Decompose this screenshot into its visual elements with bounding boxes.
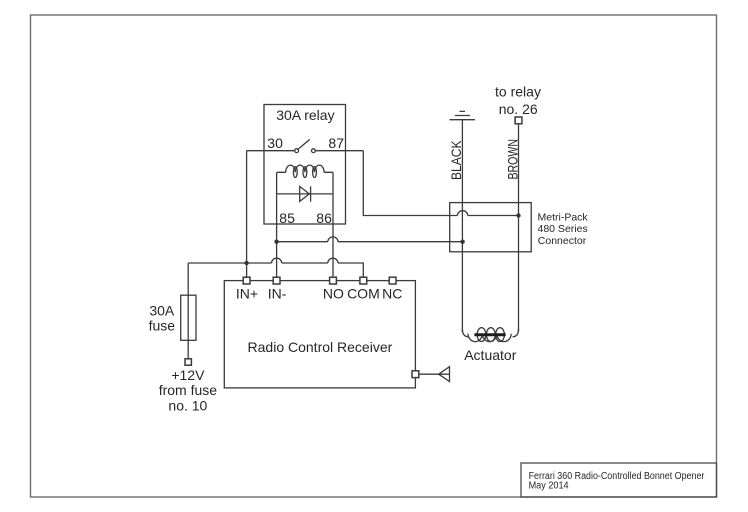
- diode D1 triangle: [300, 186, 310, 201]
- svg-text:from fuse: from fuse: [159, 382, 218, 398]
- wire hop over NO wire: [328, 237, 338, 242]
- antenna feed wire: [419, 373, 450, 375]
- actuator right lead corner: [513, 329, 519, 337]
- Metri-Pack connector box: [450, 203, 532, 252]
- terminal square NO: [330, 277, 337, 284]
- svg-text:30: 30: [267, 135, 283, 151]
- actuator coil loop 1: [477, 328, 486, 342]
- +12V terminal square: [185, 359, 191, 365]
- svg-text:COM: COM: [347, 285, 380, 301]
- junction dot at IN+ / +12V bus: [244, 261, 248, 265]
- terminal square IN+: [243, 277, 250, 284]
- title block box: [521, 463, 717, 497]
- svg-text:Actuator: Actuator: [464, 347, 516, 363]
- svg-text:86: 86: [316, 210, 332, 226]
- fuse F1 bottom wire to +12V terminal: [187, 340, 189, 359]
- svg-text:IN+: IN+: [236, 285, 258, 301]
- relay coil L1 humps: [286, 165, 324, 172]
- relay coil loop 3: [313, 167, 317, 178]
- junction dot at BROWN wire in connector: [516, 213, 520, 217]
- svg-text:Connector: Connector: [538, 235, 587, 247]
- wire pin 87 vertical and to connector: [363, 151, 518, 216]
- svg-text:May 2014: May 2014: [529, 481, 569, 492]
- svg-text:30A relay: 30A relay: [276, 107, 334, 123]
- actuator coil loop 3: [496, 328, 505, 342]
- svg-text:85: 85: [279, 210, 295, 226]
- antenna triangle: [439, 367, 450, 382]
- svg-text:NC: NC: [382, 285, 402, 301]
- fuse F1 top wire: [187, 263, 189, 295]
- wire pin 30 vertical down to IN+: [246, 151, 248, 278]
- junction dot at BLACK wire in connector: [460, 240, 464, 244]
- terminal square IN-: [273, 277, 280, 284]
- relay coil loop 1: [293, 167, 297, 178]
- svg-text:NO: NO: [323, 285, 344, 301]
- actuator coil scallops: [468, 334, 511, 342]
- +12V bus wire from fuse to COM: [188, 263, 363, 277]
- antenna terminal square: [412, 371, 419, 378]
- terminal square COM: [360, 277, 367, 284]
- to relay no.26 terminal square: [515, 117, 522, 124]
- wire pin 87 to right: [315, 150, 363, 152]
- ground symbol bars: [450, 111, 476, 119]
- svg-text:fuse: fuse: [149, 318, 176, 334]
- wire hop over IN- wire: [272, 258, 282, 263]
- fuse F1 internal wire: [187, 295, 189, 340]
- wire pin 86 vertical (inner box right edge) down to NO: [332, 172, 334, 277]
- relay switch contact wire from pin 30: [247, 150, 295, 152]
- junction dot at 85 bus: [274, 240, 278, 244]
- relay coil loop 2: [303, 167, 307, 178]
- svg-text:BROWN: BROWN: [505, 139, 521, 180]
- svg-text:87: 87: [328, 135, 344, 151]
- svg-text:no. 10: no. 10: [168, 398, 207, 414]
- svg-text:Radio Control Receiver: Radio Control Receiver: [248, 339, 393, 355]
- wire 85 bus to connector: [277, 241, 463, 243]
- svg-text:Metri-Pack: Metri-Pack: [538, 211, 589, 223]
- BROWN wire from terminal to actuator: [518, 124, 520, 332]
- wire hop over BLACK wire: [458, 211, 468, 216]
- wire hop over NO wire on 12V bus: [328, 258, 338, 263]
- relay box: [264, 105, 346, 225]
- relay switch blade: [298, 139, 310, 149]
- actuator coil loop 2: [486, 328, 495, 342]
- terminal square NC: [389, 277, 396, 284]
- relay switch left pivot circle: [295, 149, 299, 153]
- ground stem wire: [461, 120, 463, 203]
- svg-text:30A: 30A: [149, 303, 175, 319]
- wire pin 85 vertical (inner box left edge) down to IN-: [276, 172, 278, 277]
- svg-text:+12V: +12V: [171, 367, 205, 383]
- svg-text:480 Series: 480 Series: [538, 223, 588, 235]
- relay switch right contact circle: [312, 149, 316, 153]
- svg-text:no. 26: no. 26: [499, 101, 538, 117]
- actuator left lead corner: [462, 329, 468, 337]
- fuse F1 body: [181, 295, 196, 340]
- actuator armature thick bar: [474, 333, 505, 336]
- BLACK wire through connector to actuator: [461, 203, 463, 332]
- svg-text:BLACK: BLACK: [448, 140, 464, 180]
- svg-text:IN-: IN-: [268, 285, 287, 301]
- diode D1 cathode bar: [310, 186, 312, 201]
- svg-text:to relay: to relay: [495, 84, 541, 100]
- relay coil inner box top edge: [277, 171, 333, 173]
- diode D1 anode wire: [277, 193, 333, 195]
- receiver box: [224, 281, 415, 388]
